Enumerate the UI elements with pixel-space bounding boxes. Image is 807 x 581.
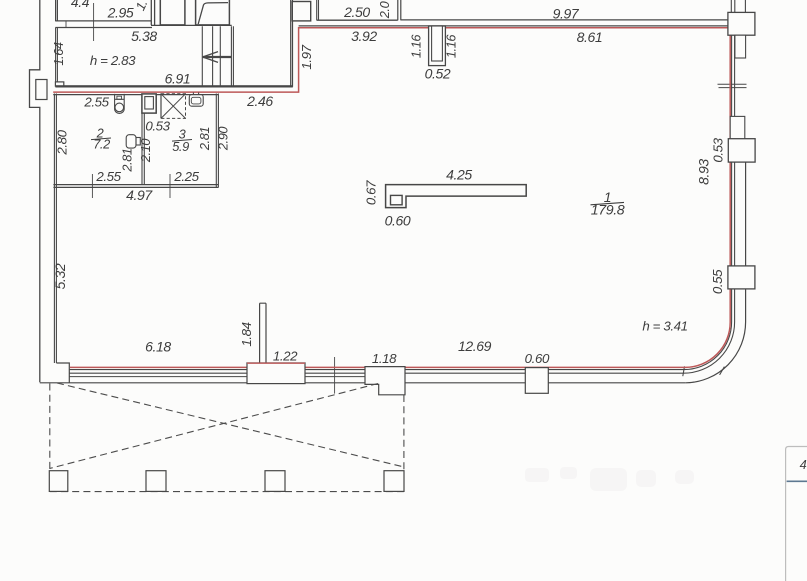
svg-text:1.64: 1.64 xyxy=(51,42,66,66)
svg-text:1.18: 1.18 xyxy=(372,351,397,366)
svg-text:0.67: 0.67 xyxy=(364,180,379,205)
wall bathroom right double xyxy=(216,94,218,188)
wall bathroom left double xyxy=(54,94,56,364)
svg-text:2.80: 2.80 xyxy=(55,129,70,155)
svg-text:2.10: 2.10 xyxy=(138,138,153,164)
svg-text:0.53: 0.53 xyxy=(711,137,726,162)
svg-text:h = 2.83: h = 2.83 xyxy=(90,53,136,68)
interior L-wall 4.25 xyxy=(386,185,527,208)
svg-text:6.18: 6.18 xyxy=(145,339,171,355)
svg-text:1.16: 1.16 xyxy=(409,34,424,59)
extension line x93.6 xyxy=(93,3,95,41)
terrace dashed outline xyxy=(50,383,405,492)
svg-text:2.90: 2.90 xyxy=(216,126,231,152)
svg-text:0.60: 0.60 xyxy=(525,351,550,366)
wall stub 2.50 right double xyxy=(398,0,401,20)
terrace column 4 xyxy=(384,471,404,492)
svg-text:5.9: 5.9 xyxy=(172,139,189,154)
wall above stairs xyxy=(151,0,232,25)
svg-text:12.69: 12.69 xyxy=(458,338,492,354)
room 1 underline xyxy=(591,202,625,204)
svg-text:1.22: 1.22 xyxy=(273,349,298,364)
pilaster P1 top-right corner xyxy=(728,12,755,35)
terrace column 3 xyxy=(265,471,285,492)
window band bottom line2 xyxy=(70,372,684,374)
svg-text:0.53: 0.53 xyxy=(145,119,170,134)
outer building wall left zigzag xyxy=(30,0,40,382)
wall corridor top double xyxy=(55,21,152,28)
svg-text:0.55: 0.55 xyxy=(710,269,725,294)
window hole in L-wall 0.60 xyxy=(391,195,403,204)
door frame mark corridor corner xyxy=(55,82,63,86)
window band bottom line1 xyxy=(70,369,685,371)
duct top of divider xyxy=(142,94,156,113)
svg-text:4.97: 4.97 xyxy=(126,187,153,203)
pilaster P2 right wall xyxy=(728,139,755,162)
wall stub 2.50 left xyxy=(317,0,319,20)
wall break ticks right xyxy=(718,84,747,87)
wall right inner double xyxy=(732,35,735,322)
wall corridor left xyxy=(56,28,58,82)
closet R1 top xyxy=(160,0,185,25)
niche N2 right wall xyxy=(730,116,745,139)
svg-text:6.91: 6.91 xyxy=(165,71,191,87)
svg-text:8.93: 8.93 xyxy=(696,159,712,185)
wall divider rooms 2-3 xyxy=(142,113,144,185)
svg-text:4: 4 xyxy=(800,457,807,472)
wall bathroom bottom thick xyxy=(53,185,218,188)
niche N1 below P1 xyxy=(735,35,746,58)
curve ticks xyxy=(683,366,725,376)
staircase flight lines xyxy=(202,26,233,86)
toilet room2 xyxy=(126,135,140,148)
door swing arc xyxy=(198,3,228,24)
wall right above corner pilaster xyxy=(731,0,745,13)
pier PB2 bottom wall L-shape xyxy=(365,367,405,395)
sink room3 xyxy=(189,93,203,107)
stamp table corner bottom-right xyxy=(786,447,807,581)
svg-text:2.46: 2.46 xyxy=(246,93,273,109)
wall right outer xyxy=(745,162,747,322)
shower room3 dashed xyxy=(161,94,186,119)
ticks below bathrooms xyxy=(92,174,170,198)
staircase direction arrow xyxy=(203,56,231,58)
svg-text:179.8: 179.8 xyxy=(591,203,625,219)
pier PB1 bottom wall xyxy=(247,363,305,384)
closet R2 with door swing xyxy=(196,0,230,25)
svg-text:5.38: 5.38 xyxy=(131,28,157,44)
pier PB3 bottom wall xyxy=(525,368,548,394)
sink room2 xyxy=(115,94,125,113)
svg-text:2.55: 2.55 xyxy=(83,95,109,110)
svg-text:0.52: 0.52 xyxy=(425,66,451,82)
room 2 underline xyxy=(91,138,111,140)
partition 1.84 xyxy=(260,303,266,363)
extension line bottom x334.6 xyxy=(334,357,336,394)
wall top outer segment 2.50 xyxy=(317,19,398,21)
svg-text:2.55: 2.55 xyxy=(95,169,121,184)
svg-text:8.61: 8.61 xyxy=(577,29,603,45)
terrace column 2 xyxy=(146,471,166,492)
wall top outer main xyxy=(401,19,728,21)
terrace diagonal 2 xyxy=(50,384,379,469)
svg-text:2.50: 2.50 xyxy=(343,4,370,20)
wall corridor right double xyxy=(291,0,293,87)
svg-text:3.92: 3.92 xyxy=(351,28,377,44)
svg-text:2.25: 2.25 xyxy=(173,169,199,184)
red boundary of apartment xyxy=(53,28,730,368)
terrace diagonal 1 xyxy=(57,383,404,467)
svg-text:7.2: 7.2 xyxy=(93,137,110,152)
window band bottom line3 xyxy=(70,376,366,378)
pilaster P3 right wall xyxy=(728,266,755,289)
svg-text:1.97: 1.97 xyxy=(299,44,314,69)
ghost watermark blobs xyxy=(525,467,694,491)
svg-text:2.95: 2.95 xyxy=(107,5,134,21)
wall corridor bottom thick xyxy=(55,85,292,87)
wall bathroom top xyxy=(53,94,218,96)
svg-text:2.81: 2.81 xyxy=(120,148,135,173)
svg-text:5.32: 5.32 xyxy=(52,263,68,289)
terrace column 1 xyxy=(49,471,68,492)
svg-text:9.97: 9.97 xyxy=(553,6,580,22)
room 3 underline xyxy=(172,140,192,142)
svg-text:0.60: 0.60 xyxy=(385,213,411,229)
wall curve outer arc xyxy=(686,322,746,383)
svg-text:4.25: 4.25 xyxy=(446,167,472,183)
pilaster corridor corner xyxy=(292,2,310,21)
window band outer bottom xyxy=(40,382,686,384)
svg-text:1.84: 1.84 xyxy=(239,322,254,346)
duct shaft top wall xyxy=(429,26,446,66)
window left exterior wall xyxy=(36,80,47,100)
red top edge of pier PB1 xyxy=(247,362,305,364)
svg-text:2.0: 2.0 xyxy=(377,0,392,19)
wall corner step bottom-left xyxy=(56,363,69,383)
wall top inner line xyxy=(299,25,728,27)
svg-text:1.16: 1.16 xyxy=(444,34,459,59)
wall curve arcs black xyxy=(684,322,732,370)
svg-text:2.81: 2.81 xyxy=(197,127,212,152)
wall top-left room left xyxy=(56,0,58,21)
svg-text:h = 3.41: h = 3.41 xyxy=(642,319,687,334)
wall tick x66 xyxy=(65,21,67,28)
svg-text:4.4: 4.4 xyxy=(71,0,90,10)
